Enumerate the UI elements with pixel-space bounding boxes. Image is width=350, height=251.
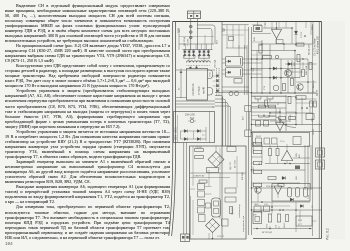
svg-text:Ак Апте: Ак Апте (312, 79, 315, 88)
svg-text:УВ 2А: УВ 2А (312, 129, 315, 135)
svg-text:АД 40: АД 40 (316, 89, 319, 96)
